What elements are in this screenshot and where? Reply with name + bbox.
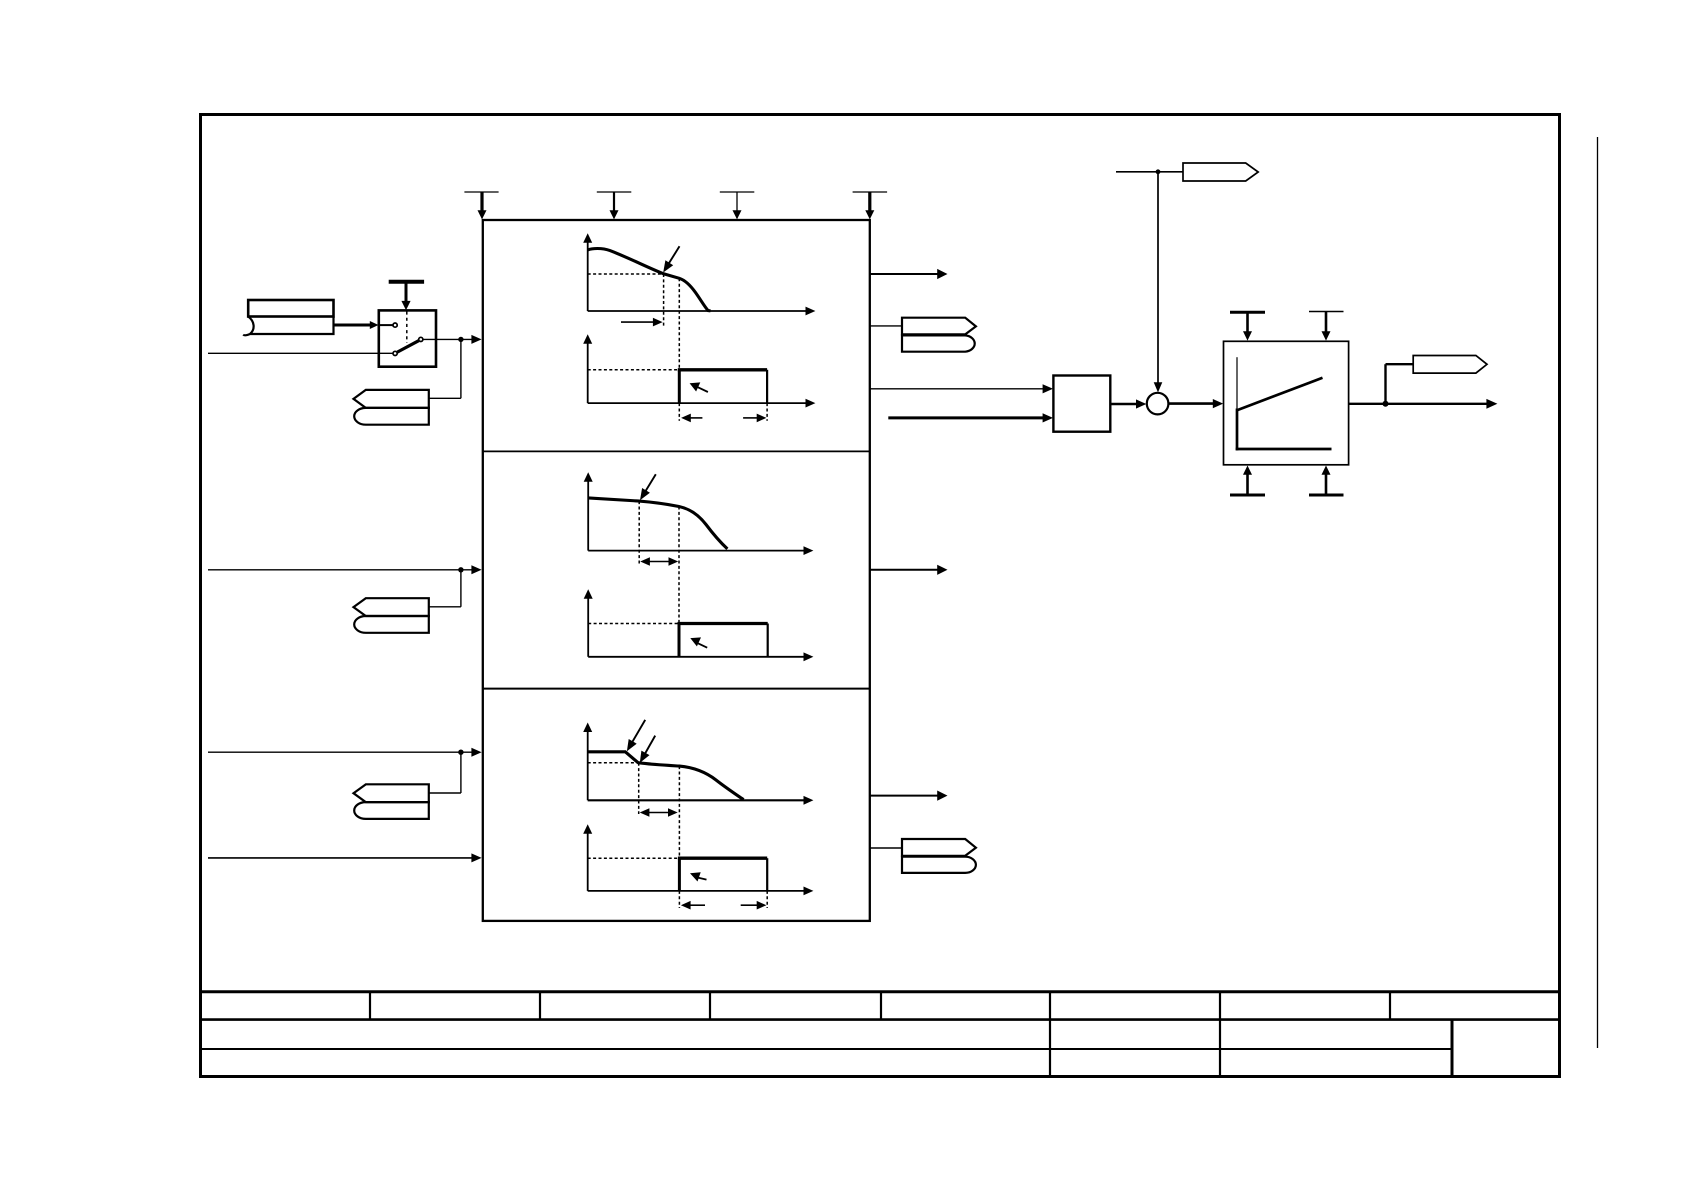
wire: limiter output — [1349, 364, 1498, 409]
summation point — [1147, 393, 1169, 415]
limiter block U1 — [1224, 341, 1349, 465]
connector banner pair R1 — [902, 318, 976, 352]
wire: input line 3 — [208, 748, 482, 757]
limiter characteristic — [1236, 357, 1332, 450]
parameter T above switch — [389, 282, 424, 311]
section 1 dashed vertical v2 — [678, 278, 680, 370]
page edge line right — [1597, 137, 1599, 1048]
switch S1 — [379, 310, 436, 366]
section 2 dashed vertical v1 — [638, 501, 640, 565]
section 1 upper graph axes — [583, 233, 815, 315]
section 1 characteristic curve — [588, 249, 711, 311]
section 2 dashed vertical v2 — [678, 507, 680, 624]
block B1 (min/max) — [1053, 376, 1110, 432]
parameter T3 top of column — [720, 192, 755, 219]
parameter T2 top of column — [597, 192, 632, 219]
connector banner pair B1 — [354, 570, 461, 633]
wire: free input to block B1 — [888, 413, 1053, 422]
wire: B1 to summation — [1110, 399, 1146, 408]
section 3 pulse box — [678, 858, 767, 891]
section 3 annotation arrow 1 — [627, 720, 645, 751]
wire: input line 4 — [208, 853, 482, 862]
title block column separators — [370, 992, 1452, 1077]
node: top connector net — [1116, 169, 1183, 392]
section 3 upper graph axes — [583, 723, 813, 805]
wire: output arrow section 2 — [870, 565, 948, 575]
parameter T1 top of column — [464, 192, 498, 219]
wire: input line 2 — [208, 565, 482, 574]
wire: switch output to column — [423, 335, 481, 398]
section 2 annotation arrow on curve — [640, 474, 656, 500]
section 3 dashed level line — [588, 762, 639, 764]
section 3 annotation arrow in box — [690, 872, 707, 881]
section 1 lower graph axes — [583, 334, 815, 407]
main function block column — [483, 220, 870, 921]
section 1 pulse box — [678, 370, 767, 403]
section 2 pulse box — [678, 624, 768, 657]
section 1 dashed vertical v1 — [663, 274, 665, 327]
section 3 characteristic curve — [588, 752, 744, 800]
connector banner pair B0 (left of column, top) — [354, 390, 429, 425]
connector banner pair R2 — [902, 839, 976, 873]
section 3 double width arrow — [640, 808, 678, 817]
section 1 small arrow under axis — [621, 318, 663, 327]
wire: input line to switch lower contact — [208, 352, 393, 354]
connector flag K1 (top right) — [1183, 163, 1258, 181]
section 3 annotation arrow 2 — [640, 736, 655, 763]
title block row line — [201, 1020, 1560, 1049]
section 2 double width arrow — [640, 557, 678, 566]
parameter T upper-right of limiter — [1309, 312, 1344, 341]
section 2 upper graph axes — [584, 472, 814, 555]
wire: to right banner pair R1 — [870, 325, 902, 327]
section 1 dashed verticals under box — [678, 403, 680, 421]
section 1 dashed level line — [588, 273, 664, 275]
section 2 dashed level to box — [588, 623, 679, 625]
wire: output arrow section 1 — [870, 269, 948, 279]
section 3 dashed vertical v2 — [678, 766, 680, 858]
parameter T lower-left of limiter — [1230, 466, 1265, 496]
section 2 characteristic curve — [588, 498, 727, 549]
section 3 dashed verticals under box — [678, 891, 680, 908]
connector banner pair B2 — [354, 752, 461, 819]
section 1 annotation arrow on curve — [663, 246, 679, 272]
section 1 width arrows under box — [681, 414, 766, 423]
wire: to right banner pair R2 — [870, 847, 902, 849]
section 2 annotation arrow in box — [690, 637, 707, 647]
wire: book to switch arrow — [334, 321, 379, 329]
parameter T lower-right of limiter — [1309, 466, 1344, 496]
section 2 lower graph axes — [584, 589, 814, 661]
parameter T upper-left of limiter — [1230, 312, 1265, 340]
section 1 dashed level to box — [588, 369, 680, 371]
wire: long line to limiter block input 1 — [870, 384, 1053, 393]
section 1 annotation arrow in box — [690, 382, 708, 392]
drawing frame — [201, 115, 1560, 1077]
connector flag K2 (output) — [1413, 356, 1487, 374]
wire: output arrow section 3 — [870, 791, 948, 801]
section 3 lower graph axes — [583, 824, 813, 895]
section 3 width arrows under box — [681, 901, 767, 910]
parameter T4 top of column — [853, 192, 888, 219]
book symbol (signal source) — [243, 300, 333, 335]
section 3 dashed level to box — [588, 857, 680, 859]
wire: summation to limiter — [1168, 399, 1223, 408]
section 3 dashed vertical v1 — [638, 763, 640, 814]
